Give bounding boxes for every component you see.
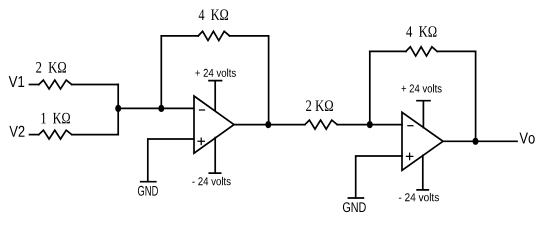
op-amp U2 minus sign — [408, 125, 413, 127]
label 1 KΩ — [42, 113, 71, 124]
wire feedback 2 top right — [437, 50, 475, 52]
node C junction dot (U1 output / feedback) — [265, 121, 271, 128]
supply -24 volts (U1) label — [192, 177, 230, 185]
resistor 4 KΩ (U1 feedback) — [198, 31, 229, 40]
label 2 KΩ (interstage) — [306, 100, 333, 111]
wire U2 non-inverting input to ground — [356, 156, 402, 198]
node V2 label — [9, 126, 24, 137]
wire V1 stub — [30, 84, 39, 86]
ground GND1 bar — [141, 181, 156, 183]
supply +24 volts (U2) label — [402, 84, 442, 92]
supply +24 volts (U2) terminal — [417, 101, 430, 128]
wire U1 output — [234, 124, 305, 126]
node B junction dot (feedback tap) — [158, 105, 164, 112]
op-amp U1 minus sign — [200, 109, 205, 111]
supply +24 volts (U1) terminal — [209, 81, 222, 111]
resistor 4 KΩ (U2 feedback) — [406, 47, 437, 56]
supply -24 volts (U1) terminal — [209, 138, 220, 174]
supply -24 volts (U2) label — [399, 193, 439, 201]
op-amp U1 — [194, 96, 234, 153]
wire feedback 2 left riser — [369, 51, 371, 124]
wire feedback 1 left riser — [160, 36, 162, 109]
wire V2 resistor to node A — [72, 134, 118, 136]
node A junction dot — [115, 105, 121, 112]
resistor 1 KΩ (V2 input) — [39, 130, 72, 139]
wire U1 non-inverting input to ground — [148, 139, 194, 182]
wire interstage resistor to op-amp U2 inverting input — [337, 124, 402, 126]
wire feedback 1 right riser — [268, 36, 270, 125]
label 4 KΩ (U1 feedback) — [199, 9, 228, 20]
ground GND2 label — [343, 202, 366, 212]
wire V2 stub — [30, 134, 39, 136]
node V1 label — [9, 76, 25, 87]
supply -24 volts (U2) terminal — [417, 156, 428, 190]
wire feedback 2 top left — [370, 50, 406, 52]
ground GND2 bar — [348, 197, 363, 199]
wire node A to op-amp U1 inverting input — [118, 107, 194, 109]
wire feedback 1 top left — [161, 35, 198, 37]
wire U2 output to Vo — [443, 140, 517, 142]
node Vo label — [520, 133, 535, 144]
wire feedback 2 right riser — [475, 51, 477, 141]
op-amp U2 — [402, 112, 443, 170]
supply +24 volts (U1) label — [195, 69, 236, 77]
resistor 2 KΩ (V1 input) — [39, 80, 72, 89]
wire feedback 1 top right — [230, 35, 269, 37]
op-amp U1 plus sign — [198, 138, 204, 144]
op-amp U2 plus sign — [406, 153, 412, 159]
node D junction dot (U2 feedback tap) — [367, 121, 373, 128]
label 4 KΩ (U2 feedback) — [406, 26, 436, 37]
label 2 KΩ — [36, 62, 66, 73]
ground GND1 label — [138, 186, 158, 196]
resistor 2 KΩ (interstage) — [305, 120, 337, 129]
wire V1 resistor to node A — [72, 84, 118, 86]
node E junction dot (U2 output / feedback) — [473, 138, 479, 145]
wire vertical joining V1 and V2 branches — [117, 85, 119, 135]
